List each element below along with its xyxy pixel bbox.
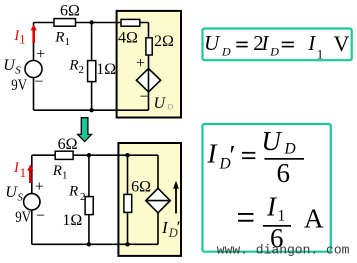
junction node (bottom circuit top wire / R2) — [87, 153, 91, 157]
junction node (bottom wire / R2 branch) — [89, 108, 93, 112]
svg-text:+: + — [36, 46, 45, 63]
wire: top circuit left vertical branch — [33, 23, 35, 111]
svg-text:U: U — [261, 126, 282, 156]
label US (bottom) — [5, 184, 23, 204]
svg-text:R: R — [54, 29, 64, 45]
resistor 2ohm (top circuit, inside box) — [146, 38, 152, 55]
wire: top circuit right vertical branch (2ohm + source U_D) — [148, 23, 150, 111]
svg-text:S: S — [15, 65, 21, 77]
highlighted region box (bottom circuit, equivalent network) — [118, 143, 181, 256]
value label 2ohm (top box) — [154, 33, 174, 50]
svg-text:D: D — [284, 141, 296, 158]
svg-text:6Ω: 6Ω — [58, 136, 78, 153]
value label 1ohm (R2 bottom) — [62, 212, 82, 229]
polarity - of source US (top) — [34, 73, 43, 90]
wire: bottom circuit 6ohm branch (inside box) — [127, 155, 129, 244]
label I_D' (bottom box) — [161, 218, 181, 240]
polarity + of source US (top) — [36, 46, 45, 63]
svg-text:+: + — [35, 178, 44, 195]
svg-text:I: I — [307, 31, 316, 55]
voltage source US (bottom circuit) — [24, 194, 40, 210]
equation box 1 (teal frame, top right) — [203, 29, 352, 61]
equation box 2 (teal frame, bottom right) — [203, 124, 331, 252]
wire: bottom circuit left vertical branch — [31, 155, 33, 244]
svg-text:U: U — [154, 95, 167, 112]
wire: top circuit top horizontal (node a) — [34, 22, 149, 24]
label R2 (bottom) — [68, 184, 86, 203]
label U_D (top box) — [154, 95, 174, 112]
svg-text:−: − — [34, 73, 43, 90]
resistor R2 (top, 1ohm) — [88, 61, 96, 82]
svg-text:R: R — [68, 184, 78, 200]
svg-text:www. diangon. com: www. diangon. com — [217, 243, 350, 258]
svg-text:9V: 9V — [11, 77, 27, 94]
svg-text:R: R — [52, 163, 62, 179]
junction node (bottom circuit bottom wire / R2) — [87, 242, 91, 246]
highlighted region box (top circuit, dependent-source network) — [117, 11, 181, 118]
label R1 (bottom) — [52, 163, 68, 182]
svg-text:6Ω: 6Ω — [131, 179, 151, 196]
equation 1: U_D = 2 I_D = I_1 V — [204, 31, 350, 62]
svg-text:1Ω: 1Ω — [96, 61, 116, 78]
svg-text:1: 1 — [20, 166, 26, 180]
svg-text:2Ω: 2Ω — [154, 33, 174, 50]
value label 6ohm (R1 top) — [60, 2, 80, 19]
wire: bottom circuit bottom horizontal — [32, 243, 158, 245]
value label 9V (bottom source) — [15, 209, 31, 226]
svg-text:U: U — [204, 31, 221, 55]
label US (top) — [3, 57, 21, 77]
wire: bottom circuit middle vertical branch (R2) — [88, 155, 90, 244]
svg-text:2: 2 — [79, 64, 85, 76]
junction node (bottom circuit top wire / 6ohm) — [125, 153, 129, 157]
resistor R1 (bottom, 6ohm) — [55, 151, 73, 159]
wire: top circuit bottom horizontal — [34, 109, 149, 111]
svg-text:1: 1 — [62, 170, 68, 182]
svg-text:−: − — [36, 208, 45, 225]
dependent source diamond (bottom circuit) — [146, 188, 170, 213]
resistor 4ohm (top circuit, inside box) — [121, 19, 140, 26]
label I1 (bottom circuit) — [13, 160, 26, 180]
svg-text:4Ω: 4Ω — [118, 30, 138, 47]
svg-text:+: + — [136, 55, 145, 72]
svg-text:1Ω: 1Ω — [62, 212, 82, 229]
svg-text:6Ω: 6Ω — [60, 2, 80, 19]
current arrow I1 (top circuit, red) — [31, 24, 37, 43]
voltage source US (top circuit) — [25, 61, 42, 78]
wire: top circuit middle vertical branch (R2) — [91, 23, 93, 111]
svg-text:6: 6 — [277, 158, 291, 188]
wire: bottom circuit dependent source branch — [157, 155, 159, 244]
polarity - of dependent source U_D (top) — [140, 89, 149, 106]
svg-text:R: R — [68, 57, 78, 73]
svg-text:D: D — [269, 45, 279, 59]
polarity + of dependent source U_D (top) — [136, 55, 145, 72]
watermark www.diangon.com — [217, 243, 350, 258]
svg-text:V: V — [334, 31, 350, 56]
junction node (top wire / R2 branch) — [89, 20, 93, 24]
equation 2 line 2: = I_1 / 6 A — [238, 191, 324, 253]
label I1 (top circuit) — [13, 28, 25, 47]
svg-text:1: 1 — [317, 47, 324, 62]
current arrow I1 (bottom circuit, red) — [27, 164, 33, 183]
polarity + of source US (bottom) — [35, 178, 44, 195]
svg-text:I: I — [261, 31, 270, 55]
svg-text:′: ′ — [177, 218, 181, 237]
junction node (bottom circuit bottom wire / 6ohm) — [125, 242, 129, 246]
svg-text:D: D — [221, 45, 231, 59]
svg-text:′: ′ — [230, 140, 236, 170]
svg-text:1: 1 — [65, 36, 71, 48]
svg-text:S: S — [17, 192, 23, 204]
resistor R2 (bottom, 1ohm) — [85, 197, 93, 215]
svg-text:2: 2 — [80, 191, 86, 203]
polarity - of source US (bottom) — [36, 208, 45, 225]
value label 9V (top source) — [11, 77, 27, 94]
resistor 6ohm (bottom circuit, inside box) — [124, 194, 132, 212]
value label 6ohm (R1 bottom) — [58, 136, 78, 153]
svg-text:U: U — [5, 184, 18, 201]
svg-text:D: D — [166, 103, 173, 112]
wire: bottom circuit top horizontal — [32, 154, 158, 156]
transform arrow (green block arrow between circuits) — [78, 118, 92, 142]
label R2 (top) — [68, 57, 84, 76]
value label 6ohm (bottom box) — [131, 179, 151, 196]
value label 4ohm (top box) — [118, 30, 138, 47]
resistor R1 (top, 6ohm) — [54, 19, 76, 27]
svg-text:−: − — [140, 89, 149, 106]
svg-text:1: 1 — [19, 33, 25, 47]
label R1 (top) — [54, 29, 70, 48]
value label 1ohm (R2 top) — [96, 61, 116, 78]
svg-text:9V: 9V — [15, 209, 31, 226]
current arrow I_D' (bottom box) — [173, 181, 179, 214]
equation 2 line 1: I_D' = U_D / 6 — [207, 126, 305, 188]
dependent voltage source U_D diamond (top circuit) — [136, 69, 160, 92]
svg-text:A: A — [304, 203, 324, 233]
